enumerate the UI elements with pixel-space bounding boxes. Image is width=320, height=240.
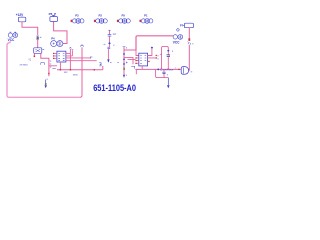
bracket mark near U2 [131,66,134,68]
wire bus to buzzer [136,68,181,70]
junction Y1 pin1 [34,56,36,58]
wire branch to bus [49,65,57,67]
wire to buzzer [188,45,191,70]
wire bus A to U2 row2 [128,58,136,60]
VCC symbol left [8,32,18,42]
buzzer LS1 [175,67,192,75]
svg-text:xxxx: xxxx [73,74,79,77]
capacitor C4 [162,69,169,77]
wire U1 row4 [66,60,97,62]
junction bus at riser [70,69,71,70]
net ticks right of x48.9 wire [50,61,51,67]
wire VCC right rail [136,36,173,50]
header P2 [94,14,107,24]
svg-text:VCC: VCC [8,38,15,42]
diamond marker left of P7 [176,28,179,31]
wire +12V to D1 [22,22,38,35]
diode D1 inline [36,36,41,39]
U1 pin 1 dot [53,53,54,54]
decoupling chain C? with ground arrow [104,30,117,63]
svg-text:+12V: +12V [16,13,24,17]
bracket mark right of bus end [99,63,101,66]
svg-text:P5: P5 [122,14,126,18]
net label dash [52,67,55,69]
U1 pin 3 dot [53,58,54,59]
capacitor C3 loop right [160,46,174,69]
wire bus A to U2 row1 [124,58,133,65]
polarized part on P7 wire [188,38,190,41]
svg-text:P4: P4 [51,37,55,41]
U1 bottom wire to bus [59,62,61,70]
IC U2 [139,53,148,66]
net arrow top [69,47,73,49]
U2 right pin dot b [156,57,157,58]
ground arrow below Y1 branch [45,79,48,88]
connector P4 [51,37,63,47]
U1 left pin stubs [54,53,57,58]
bracket marks [41,63,45,65]
junction on riser [48,73,49,74]
power flag +12V [16,13,26,22]
U2 bottom pin wire [136,66,142,74]
VCC symbol right [173,35,183,45]
U1 right pin stubs [66,53,73,56]
svg-text:CxxHxx: CxxHxx [160,70,175,72]
U2 right pin dot a [156,55,157,56]
U2 right pin stubs [148,56,156,58]
header P5 [117,14,130,24]
junction bus at U1 [60,69,61,70]
VCC loop wire (left frame, bottom, right riser) [7,41,80,97]
U2 top net [148,49,152,56]
wire U1 right to label [66,57,91,59]
crystal Y1 [34,48,45,54]
header P1 [140,14,153,24]
U2 pin 2 dot [135,57,136,58]
net arrow top of riser [80,45,84,47]
U2 left pin stubs [137,58,139,63]
ground arrow [167,78,170,89]
U1 pin 2 dot [53,55,54,56]
tick under U2 [135,69,138,71]
svg-text:VCC: VCC [173,40,180,44]
connector P7 [180,23,194,28]
wire P6 to P4 [54,21,67,43]
junction bus right [94,69,95,70]
net diamond on wire [157,68,159,70]
net risers right of U1 [70,49,72,70]
svg-text:xx-xxxx: xx-xxxx [20,64,29,67]
wire P7 down [188,28,190,38]
wire D1 to Y1 [37,40,39,48]
IC U1 [57,51,66,62]
svg-text:P3: P3 [75,14,79,18]
U2 pin 4 dot [135,63,136,64]
net label mark [126,62,127,64]
U2 right pin dot c [148,61,149,62]
svg-text:P2: P2 [99,14,103,18]
header P3 [71,14,84,24]
wire Y1 pin 1 down [33,53,35,56]
U2 pin 3 dot [135,60,136,61]
wire Y1 pin 2 to net riser [41,53,49,76]
connector P6_P [49,12,58,24]
svg-text:651-1105-A0: 651-1105-A0 [93,83,136,94]
branch to ground [156,69,169,77]
svg-text:P1: P1 [144,14,148,18]
GND bus [57,66,103,70]
net label dashes [110,61,119,63]
net bus A with junction diamonds [123,47,128,78]
